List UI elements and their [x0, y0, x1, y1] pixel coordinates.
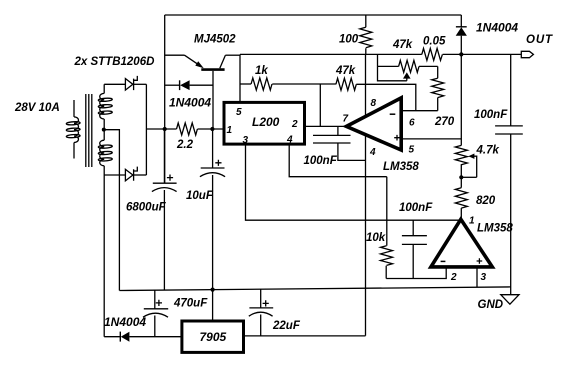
svg-text:7905: 7905 — [200, 330, 227, 344]
node junction OUT — [459, 52, 463, 56]
svg-text:10k: 10k — [366, 232, 386, 244]
transformer secondary upper — [98, 84, 112, 129]
svg-text:4.7k: 4.7k — [476, 145, 500, 157]
wire op2 pin2 — [386, 267, 446, 279]
wire negative rail left vertical — [103, 175, 105, 337]
node junction 4.7k wiper — [459, 175, 463, 179]
svg-text:4: 4 — [286, 135, 293, 146]
ground symbol — [501, 295, 519, 305]
op-amp U1 LM358 — [346, 98, 401, 150]
diode D6 1N4004 bottom — [104, 332, 182, 342]
wire op1 supply vertical — [365, 54, 367, 335]
capacitor C7 470uF — [143, 290, 168, 337]
resistor 100 — [360, 15, 372, 54]
svg-text:L200: L200 — [252, 115, 280, 129]
wire 7905 output — [244, 335, 366, 337]
svg-text:2.2: 2.2 — [176, 139, 194, 151]
capacitor C6 100nF output — [495, 54, 523, 294]
transformer core — [86, 94, 92, 167]
svg-text:100nF: 100nF — [304, 155, 338, 167]
resistor 2.2 — [177, 123, 198, 135]
wire L200 pin4 to 10k — [289, 144, 387, 177]
svg-text:5: 5 — [236, 107, 242, 118]
svg-text:LM358: LM358 — [383, 161, 419, 173]
capacitor C3 100nF L200 — [313, 126, 365, 160]
svg-text:1: 1 — [469, 216, 475, 227]
wire left vertical from top rail to 6800uF — [164, 15, 166, 183]
svg-text:3: 3 — [481, 272, 487, 283]
svg-text:1k: 1k — [255, 65, 268, 77]
wire op1 output node from 1k/47k — [319, 84, 321, 126]
svg-text:820: 820 — [476, 195, 496, 207]
wire 47k feedback to pin6 — [356, 84, 416, 110]
diode D3 1N4004 top right — [456, 15, 467, 54]
resistor 820 — [455, 177, 467, 219]
resistor 47k feedback — [336, 78, 356, 90]
resistor 0.05 — [422, 48, 443, 60]
svg-text:OUT: OUT — [526, 34, 553, 46]
wire OUT line — [240, 53, 521, 55]
resistor 1k — [240, 78, 336, 90]
svg-text:28V 10A: 28V 10A — [14, 102, 60, 114]
svg-text:22uF: 22uF — [272, 320, 301, 332]
node junction 7905 top — [211, 288, 215, 292]
svg-text:6800uF: 6800uF — [126, 202, 167, 214]
diode D5 STTB1206D bottom — [104, 167, 146, 181]
wire op1 pin6 — [401, 110, 438, 112]
resistor 270 — [432, 66, 444, 110]
svg-text:270: 270 — [434, 116, 455, 128]
node junction left — [163, 127, 167, 131]
wire op2 pin3 to ground bus — [476, 267, 478, 287]
svg-text:8: 8 — [371, 98, 377, 109]
svg-text:LM358: LM358 — [477, 223, 513, 235]
svg-text:100: 100 — [339, 34, 359, 46]
svg-text:2: 2 — [291, 119, 298, 130]
potentiometer 47k — [378, 60, 438, 80]
capacitor C8 22uF — [249, 289, 273, 336]
svg-text:6: 6 — [409, 118, 415, 129]
transformer secondary lower — [98, 130, 112, 175]
svg-text:1N4004: 1N4004 — [104, 315, 146, 329]
diode D2 1N4004 base — [165, 80, 213, 90]
svg-text:10uF: 10uF — [186, 190, 214, 202]
transistor Q1 MJ4502 — [185, 55, 241, 69]
svg-text:47k: 47k — [392, 39, 413, 51]
svg-text:100nF: 100nF — [399, 202, 433, 214]
wire emitter feed — [165, 54, 185, 56]
potentiometer 4.7k — [455, 145, 476, 177]
svg-text:1N4004: 1N4004 — [476, 21, 518, 35]
wire out node down to 4.7k — [460, 54, 462, 145]
svg-text:47k: 47k — [335, 65, 356, 77]
capacitor C2 10uF — [200, 129, 225, 321]
connector OUT tag — [521, 51, 533, 57]
capacitor C1 6800uF — [152, 129, 177, 290]
wire L200 pin5 / collector node vertical — [239, 54, 241, 102]
svg-text:470uF: 470uF — [173, 298, 208, 310]
svg-text:1N4004: 1N4004 — [169, 96, 211, 110]
resistor 10k — [381, 177, 393, 279]
op-amp U3 LM358 — [431, 219, 492, 267]
wire top rail — [165, 14, 462, 16]
capacitor C5 100nF integrator — [402, 220, 427, 279]
IC U2 L200 box — [224, 102, 305, 144]
svg-text:2: 2 — [450, 272, 457, 283]
wire base vertical — [212, 71, 214, 129]
wire L200 pin2 to op1 output — [305, 125, 347, 127]
wire pot sense drop — [377, 54, 379, 66]
svg-text:2x STTB1206D: 2x STTB1206D — [74, 56, 155, 68]
wire op1 pin5 to 4.7k — [401, 138, 461, 140]
node center tap — [102, 128, 106, 132]
wire rectifier output vertical — [145, 84, 147, 175]
wire L200 pin3 to op2 output — [246, 144, 461, 220]
svg-text:7: 7 — [343, 114, 349, 125]
svg-text:MJ4502: MJ4502 — [194, 34, 236, 46]
svg-text:GND: GND — [478, 299, 504, 311]
wire center tap to ground bus — [104, 130, 120, 291]
wire rectifier output to L200 — [146, 128, 224, 130]
diode D4 STTB1206D top — [104, 76, 146, 90]
svg-text:100nF: 100nF — [474, 109, 508, 121]
ground bus — [119, 287, 510, 291]
node junction L200 input — [210, 127, 214, 131]
svg-text:0.05: 0.05 — [423, 36, 446, 48]
svg-text:4: 4 — [369, 147, 376, 158]
IC U4 7905 box — [182, 321, 244, 352]
svg-text:1: 1 — [227, 125, 233, 136]
transformer T1 primary — [66, 100, 80, 159]
svg-text:5: 5 — [409, 145, 415, 156]
